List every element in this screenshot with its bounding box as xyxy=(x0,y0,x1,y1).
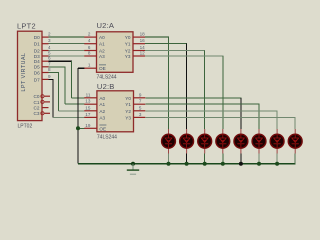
svg-text:16: 16 xyxy=(140,38,146,43)
svg-text:D2: D2 xyxy=(34,48,40,53)
svg-text:C0: C0 xyxy=(34,94,40,99)
LED D3 xyxy=(198,129,212,154)
wire ground bus xyxy=(78,163,296,165)
U2:B pin Y2 (5) xyxy=(125,105,145,114)
wire D7 LPT pin9 to U2:B A3 xyxy=(49,78,54,80)
svg-text:74LS244: 74LS244 xyxy=(97,135,117,141)
svg-text:14: 14 xyxy=(140,45,146,50)
LED D7 xyxy=(270,129,284,154)
svg-text:7: 7 xyxy=(48,61,51,66)
svg-text:D4: D4 xyxy=(34,59,40,64)
svg-text:2: 2 xyxy=(48,32,51,37)
wire LED5 cathode xyxy=(240,154,242,164)
svg-text:LPT02: LPT02 xyxy=(18,123,33,129)
wire U2:B Y1 to LED D6 xyxy=(145,103,259,105)
svg-text:15: 15 xyxy=(85,105,91,110)
svg-text:Y1: Y1 xyxy=(125,102,131,107)
LPT2 pin C0 inverted xyxy=(34,94,51,99)
svg-text:9: 9 xyxy=(139,92,142,97)
svg-text:7: 7 xyxy=(139,99,142,104)
svg-text:Y2: Y2 xyxy=(125,109,131,114)
U2:A pin Y2 (14) xyxy=(125,45,145,54)
LED D4 xyxy=(216,129,230,154)
U2:A pin OE (1) xyxy=(84,63,106,72)
svg-text:U2:A: U2:A xyxy=(97,21,115,30)
wire LED1 cathode xyxy=(168,154,170,164)
svg-text:5: 5 xyxy=(139,105,142,110)
svg-text:Y1: Y1 xyxy=(125,42,131,47)
LPT2 pin D6 (8) xyxy=(34,67,51,75)
svg-text:12: 12 xyxy=(140,51,146,56)
LED D8 xyxy=(288,129,302,154)
wire LED3 cathode xyxy=(204,154,206,164)
U2:B pin Y3 (3) xyxy=(125,112,145,121)
svg-text:A0: A0 xyxy=(99,35,105,40)
junction dot LED2 cathode on ground bus xyxy=(185,162,189,166)
wire D4 LPT pin6 to U2:B A0 xyxy=(49,60,72,62)
U2:A pin A3 (8) xyxy=(84,51,105,60)
wire LED4 cathode xyxy=(222,154,224,164)
LPT2 pin D5 (7) xyxy=(34,61,51,69)
wire U2:B Y0 to LED D5 xyxy=(145,97,241,99)
LED D1 xyxy=(162,129,176,154)
junction dot U2:B OE on ground drop xyxy=(76,126,80,130)
ground symbol xyxy=(127,164,139,175)
buffer U2:B 74LS244 xyxy=(97,82,134,141)
wire OE net: U2:A pin1 across down to ground xyxy=(78,67,85,69)
svg-text:3: 3 xyxy=(48,38,51,43)
LED D2 xyxy=(180,129,194,154)
U2:A pin Y0 (18) xyxy=(125,32,145,41)
junction dot LED6 cathode on ground bus xyxy=(257,162,261,166)
wire U2:A Y1 to LED D2 xyxy=(145,43,187,45)
LED D5 xyxy=(234,129,248,154)
wire D0 LPT pin2 to U2:A A0 xyxy=(49,36,85,38)
svg-text:Y0: Y0 xyxy=(125,35,131,40)
svg-text:A2: A2 xyxy=(99,49,105,54)
U2:B pin A0 (11) xyxy=(84,92,105,101)
wire U2:B pin19 OE branch xyxy=(78,127,85,129)
svg-text:A1: A1 xyxy=(99,102,105,107)
svg-text:4: 4 xyxy=(88,38,91,43)
svg-text:C1: C1 xyxy=(34,100,40,105)
wire D6 LPT pin8 to U2:B A2 xyxy=(49,72,59,74)
svg-text:Y2: Y2 xyxy=(125,49,131,54)
U2:A pin A1 (4) xyxy=(84,38,105,47)
svg-text:C2: C2 xyxy=(34,106,40,111)
junction dot ground symbol xyxy=(131,162,135,166)
wire LED7 cathode xyxy=(276,154,278,164)
svg-text:8: 8 xyxy=(88,51,91,56)
svg-text:D0: D0 xyxy=(34,35,40,40)
LED D6 xyxy=(252,129,266,154)
svg-text:U2:B: U2:B xyxy=(97,82,115,91)
wire U2:A Y0 to LED D1 xyxy=(145,36,169,38)
wire D5 LPT pin7 to U2:B A1 xyxy=(49,66,66,68)
LPT2 pin D4 (6) xyxy=(34,56,51,64)
junction dot LED7 cathode on ground bus xyxy=(275,162,279,166)
U2:B pin OE (19) xyxy=(84,123,106,132)
svg-text:A3: A3 xyxy=(99,54,105,59)
svg-text:4: 4 xyxy=(48,45,51,50)
U2:B pin Y0 (9) xyxy=(125,92,145,101)
U2:A pin A0 (2) xyxy=(84,32,105,41)
svg-text:OE: OE xyxy=(99,66,106,71)
junction dot LED5 cathode on ground bus xyxy=(239,162,243,166)
LPT2 pin C2 xyxy=(34,106,49,111)
wire U2:B Y3 to LED D8 xyxy=(145,116,295,118)
svg-text:18: 18 xyxy=(140,32,146,37)
U2:A pin Y3 (12) xyxy=(125,51,145,60)
svg-text:6: 6 xyxy=(48,56,51,61)
buffer U2:A 74LS244 xyxy=(97,21,134,80)
junction dot LED4 cathode on ground bus xyxy=(221,162,225,166)
LPT2 pin D0 (2) xyxy=(34,32,51,40)
svg-text:A3: A3 xyxy=(99,115,105,120)
LPT2 pin D1 (3) xyxy=(34,38,51,46)
connector LPT2 (LPT VIRTUAL parallel port) xyxy=(17,21,42,129)
svg-text:8: 8 xyxy=(48,67,51,72)
wire D2 LPT pin4 to U2:A A2 xyxy=(49,50,85,52)
wire D3 LPT pin5 to U2:A A3 xyxy=(49,55,85,57)
svg-text:LPT2: LPT2 xyxy=(17,21,36,30)
svg-text:19: 19 xyxy=(85,123,91,128)
svg-text:A2: A2 xyxy=(99,109,105,114)
svg-text:Y3: Y3 xyxy=(125,115,131,120)
svg-text:A1: A1 xyxy=(99,42,105,47)
svg-text:1: 1 xyxy=(88,63,91,68)
svg-text:D7: D7 xyxy=(34,77,40,82)
svg-text:A0: A0 xyxy=(99,96,105,101)
junction dot LED1 cathode on ground bus xyxy=(167,162,171,166)
svg-text:11: 11 xyxy=(86,92,91,97)
svg-text:Y3: Y3 xyxy=(125,54,131,59)
svg-text:D1: D1 xyxy=(34,42,40,47)
svg-text:6: 6 xyxy=(88,45,91,50)
LPT2 pin C3 inverted xyxy=(34,111,51,116)
svg-text:9: 9 xyxy=(48,74,51,79)
LPT2 pin D3 (5) xyxy=(34,51,51,59)
LPT2 pin C1 inverted xyxy=(34,100,51,105)
U2:A pin A2 (6) xyxy=(84,45,105,54)
wire U2:B Y2 to LED D7 xyxy=(145,110,277,112)
LPT2 pin D2 (4) xyxy=(34,45,51,53)
svg-text:2: 2 xyxy=(88,32,91,37)
svg-text:17: 17 xyxy=(85,112,91,117)
U2:B pin A2 (15) xyxy=(84,105,105,114)
wire LED8 cathode xyxy=(294,154,296,164)
U2:A pin Y1 (16) xyxy=(125,38,145,47)
wire U2:A Y2 to LED D3 xyxy=(145,50,205,52)
LPT2 pin D7 (9) xyxy=(34,74,51,82)
wire D1 LPT pin3 to U2:A A1 xyxy=(49,43,85,45)
svg-text:LPT VIRTUAL: LPT VIRTUAL xyxy=(21,53,27,92)
svg-text:D5: D5 xyxy=(34,65,40,70)
svg-text:OE: OE xyxy=(99,126,106,131)
U2:B pin Y1 (7) xyxy=(125,99,145,108)
svg-text:Y0: Y0 xyxy=(125,96,131,101)
junction dot LED3 cathode on ground bus xyxy=(203,162,207,166)
U2:B pin A1 (13) xyxy=(84,99,105,108)
wire LED6 cathode xyxy=(258,154,260,164)
wire U2:A Y3 to LED D4 xyxy=(145,55,223,57)
svg-text:D6: D6 xyxy=(34,70,40,75)
svg-text:3: 3 xyxy=(139,112,142,117)
svg-text:13: 13 xyxy=(85,99,91,104)
svg-text:74LS244: 74LS244 xyxy=(97,74,117,80)
U2:B pin A3 (17) xyxy=(84,112,105,121)
wire LED2 cathode xyxy=(186,154,188,164)
svg-text:C3: C3 xyxy=(34,111,40,116)
